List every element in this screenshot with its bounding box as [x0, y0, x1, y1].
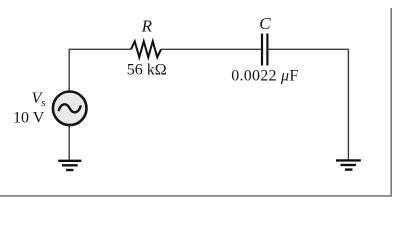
- ground left: [58, 161, 81, 170]
- wire: capacitor to right ground: [268, 49, 349, 159]
- svg-text:C: C: [259, 14, 271, 33]
- capacitor value 0.0022 µF: [231, 67, 298, 84]
- svg-text:R: R: [141, 17, 153, 36]
- capacitor label C: [259, 14, 271, 33]
- figure frame right border: [390, 8, 392, 196]
- svg-text:56 kΩ: 56 kΩ: [127, 61, 167, 78]
- svg-text:10 V: 10 V: [13, 109, 45, 126]
- ground right: [336, 160, 361, 169]
- svg-text:Vs: Vs: [32, 90, 46, 109]
- ac voltage source circle: [53, 92, 87, 126]
- figure frame bottom border: [0, 195, 392, 197]
- wire: source bottom to left ground: [68, 126, 70, 161]
- svg-text:0.0022 μF: 0.0022 μF: [231, 67, 298, 84]
- wire: resistor to capacitor: [161, 48, 261, 50]
- resistor R: [131, 41, 161, 57]
- resistor label R: [141, 17, 153, 36]
- ac source sine wave: [59, 104, 81, 112]
- wire: top-left segment from source to resistor: [69, 49, 131, 90]
- source value 10 V: [13, 109, 45, 126]
- capacitor C plate left: [261, 34, 263, 66]
- resistor value 56 kΩ: [127, 61, 167, 78]
- capacitor C plate right: [266, 34, 268, 66]
- source label Vs: [32, 90, 46, 109]
